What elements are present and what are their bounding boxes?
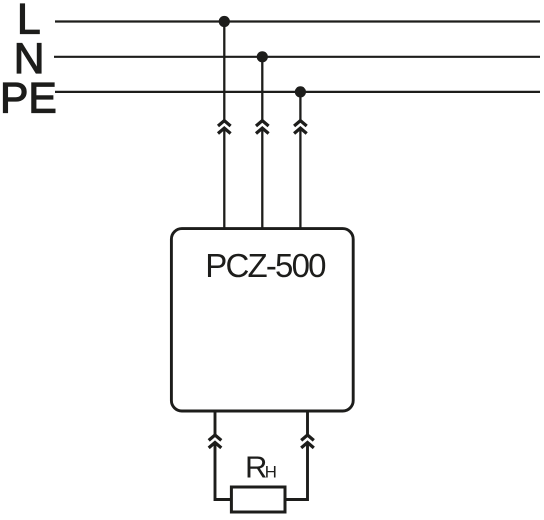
node junction dot on L [219, 16, 230, 27]
plug chevrons on bottom right wire [301, 435, 314, 448]
node junction dot on N [257, 51, 268, 62]
svg-text:PCZ-500: PCZ-500 [205, 247, 326, 284]
resistor RH [231, 487, 285, 512]
node junction dot on PE [295, 86, 306, 97]
wire from PE to box [299, 92, 301, 121]
wire L bus line [55, 20, 540, 22]
plug chevrons on PE wire [294, 121, 307, 134]
plug chevrons on L wire [218, 121, 231, 134]
wire PE bus line [55, 91, 540, 93]
plug chevrons on N wire [256, 121, 269, 134]
wire from N to box [261, 57, 263, 121]
wire from box bottom right [306, 411, 309, 435]
wire N bus line [54, 56, 540, 58]
wire from box bottom left [214, 411, 217, 435]
plug chevrons on bottom left wire [209, 435, 222, 448]
device box PCZ-500 [171, 229, 353, 411]
svg-text:PE: PE [0, 76, 57, 123]
wire from L to box [223, 22, 225, 121]
